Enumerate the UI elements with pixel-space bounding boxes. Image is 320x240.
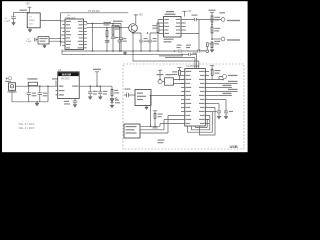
IC U6 power switch xyxy=(124,124,140,138)
ground (C14) xyxy=(73,105,77,108)
wire U6 out 3 xyxy=(140,116,181,134)
net labels right rows xyxy=(223,81,238,94)
svg-text:0.1µF: 0.1µF xyxy=(26,41,32,43)
junction dots power section xyxy=(28,85,101,102)
capacitor C13 xyxy=(27,86,31,102)
value label R8 xyxy=(158,114,163,118)
wire vertical rail x92.5 xyxy=(92,24,94,52)
label Y1 inside xyxy=(40,38,48,42)
value label chain resistors xyxy=(209,10,221,45)
svg-text:MAXIM: MAXIM xyxy=(62,73,72,77)
ground (C1) xyxy=(12,23,16,26)
resonator Y1 xyxy=(38,37,49,44)
value label C15 xyxy=(125,89,131,90)
capacitor under R3 xyxy=(111,35,115,51)
wire U4 right row 95.5 xyxy=(209,95,232,97)
wire U2 output rail xyxy=(79,85,112,87)
ground (power entry) xyxy=(35,102,39,106)
crystal module XTAL2 xyxy=(135,90,151,106)
wire U6 out 2 xyxy=(140,120,181,130)
svg-text:TO RS-232: TO RS-232 xyxy=(88,11,100,13)
wire U1 output to bus xyxy=(40,13,60,46)
wire rail C/D tie xyxy=(132,51,134,61)
note label near U6 xyxy=(158,140,165,144)
svg-text:U4 PDIUSB: U4 PDIUSB xyxy=(187,66,200,68)
wire J2 link xyxy=(212,38,221,40)
pin name labels U5 left column xyxy=(164,19,169,34)
part label below U5 xyxy=(164,39,174,43)
wire U5 to connector with series capacitor C11 xyxy=(186,18,221,21)
ground (C4) xyxy=(98,97,102,100)
capacitor C4 xyxy=(98,86,102,97)
capacitor C3 xyxy=(88,86,92,97)
net label J1 xyxy=(220,12,241,21)
fuse F1 xyxy=(28,82,37,85)
power flag +5V (R8) xyxy=(153,111,157,114)
capacitor C15 (XTAL2) xyxy=(124,93,135,97)
power flag +5V (right top) xyxy=(210,65,214,69)
svg-text:C8a...b = 10nF: C8a...b = 10nF xyxy=(19,127,35,130)
resistor R2 xyxy=(106,28,108,37)
pin name labels U4 right column xyxy=(199,71,205,124)
label DC jack xyxy=(8,91,17,92)
DC jack J4 xyxy=(9,83,16,91)
ground (Y1) xyxy=(43,44,47,48)
resistor R3 xyxy=(112,24,114,36)
value label R16 xyxy=(209,43,214,44)
transistor Q1 xyxy=(129,24,138,33)
label XTAL2 xyxy=(137,93,146,101)
svg-text:MAX3100: MAX3100 xyxy=(66,17,76,20)
wire Y1 to U3 (2 lines) xyxy=(49,38,61,41)
pins U3 right xyxy=(84,22,87,48)
resistor R8 xyxy=(154,113,156,126)
resistor R11 xyxy=(211,27,213,40)
wire rail C xyxy=(165,58,195,69)
connector J1 circle xyxy=(221,18,225,22)
label D1 LED xyxy=(115,100,120,104)
svg-text:+5V: +5V xyxy=(139,14,144,17)
label 5.2V xyxy=(52,78,58,79)
border frame xyxy=(0,0,250,155)
series capacitor C6b on rail B xyxy=(189,53,191,56)
value label C5 xyxy=(106,37,119,42)
svg-text:MAX687: MAX687 xyxy=(61,78,71,81)
ground (C17) xyxy=(224,116,228,119)
pins U4 right xyxy=(205,72,209,124)
wire long rail A xyxy=(62,50,179,52)
power flag +5V (osc Y3) xyxy=(158,70,162,79)
resistor R16 xyxy=(206,43,208,50)
svg-text:+5V: +5V xyxy=(187,11,192,13)
IC U3 MAX3100 xyxy=(65,19,84,50)
pins U3 left xyxy=(62,25,65,46)
connector terminal J3 xyxy=(206,50,209,53)
svg-text:USB: USB xyxy=(230,144,238,149)
junction dots Y1 bus xyxy=(60,38,62,43)
wire loop L2 xyxy=(192,116,210,130)
wire U4 right row 83.5 xyxy=(209,83,238,85)
wire U3 left pin ties xyxy=(61,21,66,42)
wire long rail B xyxy=(62,53,189,55)
wire XTAL2 to U4 xyxy=(151,95,185,97)
ground (R chain) xyxy=(210,50,214,53)
wire XTAL2 net drop to U6 xyxy=(150,96,152,127)
net label J2 xyxy=(227,39,240,40)
reference label U5 xyxy=(165,11,176,15)
IC U4 USB controller xyxy=(185,69,206,127)
label Q1 xyxy=(113,21,123,26)
resistor R1 xyxy=(111,86,113,98)
ground (U1) xyxy=(28,28,32,33)
resistor R10 xyxy=(211,16,213,27)
capacitor C1 xyxy=(11,12,16,22)
oscillator module U1 XTAL1 xyxy=(27,13,40,28)
capacitor C10 xyxy=(148,33,158,51)
svg-text:+5V: +5V xyxy=(25,3,30,6)
capacitor C17 xyxy=(224,100,228,117)
value label C14 xyxy=(64,101,70,105)
wire power ground rail xyxy=(12,86,48,102)
MAXIM logo band xyxy=(58,72,79,76)
pins U4 left xyxy=(181,72,185,124)
value label C2 xyxy=(43,93,48,97)
svg-text:XTAL1: XTAL1 xyxy=(29,19,36,22)
value label C3 xyxy=(93,91,98,95)
wire Q1 base xyxy=(87,27,129,29)
node 5.2V tick xyxy=(55,81,57,87)
resistor R12 xyxy=(211,42,213,50)
value label C11 xyxy=(192,15,198,16)
wire tie U3 bottom xyxy=(61,50,63,55)
AC adapter symbol xyxy=(6,77,12,80)
label fuse xyxy=(28,78,38,79)
pin name labels U3 right column xyxy=(78,21,83,48)
wire rail B drop into USB box xyxy=(196,54,198,68)
junction dots USB section xyxy=(150,79,224,127)
IC U2 MAX687 body xyxy=(58,72,79,99)
capacitor C9 xyxy=(133,33,143,51)
label 5V flag xyxy=(93,69,101,70)
wire vertical x197 upper xyxy=(198,20,200,34)
wire rail D xyxy=(133,61,199,68)
svg-text:CLK: CLK xyxy=(29,24,34,26)
wire Q1 emitter down xyxy=(132,32,134,51)
svg-text:0.1µF: 0.1µF xyxy=(5,21,11,23)
IC U5 xyxy=(164,17,182,38)
value label R3 xyxy=(115,26,121,30)
capacitor C8 xyxy=(118,28,122,51)
capacitor C16 xyxy=(217,104,221,117)
wire power input rail xyxy=(16,85,58,87)
power flag +5V (top-left) xyxy=(28,7,32,13)
power flag +5V (R chain) xyxy=(210,12,214,16)
value label C6 xyxy=(177,45,182,49)
capacitor on rail x121 xyxy=(119,24,123,52)
value label C4 xyxy=(103,91,108,95)
junction dots top section xyxy=(92,23,213,55)
power flag +5V (R9) xyxy=(177,68,181,71)
pin name labels U4 left column xyxy=(186,71,192,124)
oscillator Y3 xyxy=(158,78,174,85)
value label R4 xyxy=(152,25,156,29)
value label C6b xyxy=(186,45,191,49)
wire +5V to C1 xyxy=(14,11,30,13)
label Y3 xyxy=(157,74,173,75)
value label R9 xyxy=(172,71,177,75)
series capacitor C6 on rail A xyxy=(179,49,198,52)
value label R15 xyxy=(215,70,221,74)
value labels C8 C9 C10 xyxy=(122,38,156,42)
wire loop L3 xyxy=(196,120,210,128)
ground (C16) xyxy=(217,116,221,119)
series capacitor C7 on rail A xyxy=(198,49,206,52)
LED D1 xyxy=(110,97,118,105)
ground (XTAL2) xyxy=(145,106,149,110)
pins U5 left xyxy=(159,20,164,34)
capacitor under R2 xyxy=(105,37,109,51)
wire top rail RS-232 xyxy=(61,12,129,14)
wire U4 right row 91.5 xyxy=(209,91,238,93)
connector J5 circle xyxy=(219,75,227,80)
value label C7 xyxy=(201,50,205,51)
wire U5 pin down to rail A xyxy=(186,34,199,52)
USB section dashed box xyxy=(123,64,244,149)
value labels C16 C17 xyxy=(213,111,233,112)
power flag +5V (U5) xyxy=(182,11,186,16)
resistor R4 xyxy=(157,20,159,52)
capacitor C2 xyxy=(38,86,42,102)
wire loop L1 xyxy=(188,112,213,133)
ground (D1) xyxy=(110,105,114,108)
wire U3 to RC rail xyxy=(87,22,121,24)
svg-text:C6a...b = 10nF: C6a...b = 10nF xyxy=(19,123,35,126)
wire Y3 to U4 (2 lines) xyxy=(174,80,185,84)
wire U4 right row 87.5 xyxy=(209,87,232,89)
value label C13 xyxy=(32,93,37,97)
net label J5 xyxy=(228,75,238,76)
value label R1 xyxy=(114,90,119,94)
capacitor C14 under U2 xyxy=(73,99,77,105)
pins U2 left xyxy=(55,91,57,95)
connector J2 circle xyxy=(221,37,225,41)
net label on rail D xyxy=(159,55,183,56)
label U6 xyxy=(126,126,137,134)
wire U4 right row 103.5 xyxy=(209,103,219,105)
pins U5 right xyxy=(181,20,186,34)
pin name labels U5 right column xyxy=(176,19,181,34)
value label C12 xyxy=(193,53,198,54)
resistor R15 xyxy=(209,69,223,79)
label clock net xyxy=(20,10,28,11)
TEXTS-TOP xyxy=(5,3,101,43)
power flag 5V output xyxy=(95,72,99,86)
wire loop L0 xyxy=(200,108,216,136)
resistor R9 pull-up xyxy=(179,70,181,79)
pin name labels U3 left column xyxy=(66,21,71,48)
value label R2 xyxy=(104,22,112,26)
pin label right of U6 xyxy=(153,127,158,128)
ground (rail A) xyxy=(123,51,127,55)
wire U4 right row 99.5 xyxy=(209,99,226,101)
label AC adapter xyxy=(5,81,11,82)
wire U6 out 1 xyxy=(140,124,181,127)
power flag +5V (Q1) xyxy=(134,15,138,24)
ground (C3) xyxy=(88,97,92,100)
capacitor C2 (Y1 load) xyxy=(34,38,38,42)
pin name labels U2 xyxy=(59,86,78,96)
